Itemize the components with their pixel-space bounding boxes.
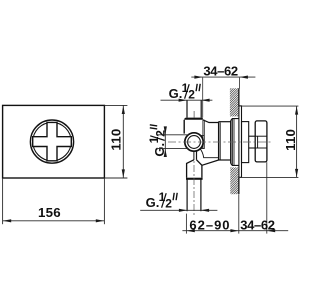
body left edge (183, 120, 185, 134)
dim G.1/2 left boss (147, 125, 168, 157)
handle stem (249, 135, 256, 137)
svg-text:110: 110 (108, 129, 123, 151)
lower block bottom thick bar (186, 178, 203, 180)
vertical center line bottom (193, 152, 195, 216)
bottom dim line 62-90 / 34-62 (182, 230, 288, 232)
dim G.1/2 top (169, 81, 196, 102)
lower block (187, 160, 194, 178)
dim 110 right (242, 105, 299, 107)
wall hatch upper block (230, 88, 239, 116)
svg-text:110: 110 (283, 129, 298, 151)
svg-text:62–90: 62–90 (189, 217, 230, 232)
body chamfer top right (203, 120, 219, 123)
dimension 110 (left view, right side) (104, 105, 127, 178)
svg-text:2: 2 (165, 197, 172, 211)
knob (255, 121, 267, 162)
svg-text:34–62: 34–62 (240, 217, 275, 232)
cartridge housing (218, 122, 220, 160)
neck below boss (193, 151, 195, 160)
knob inner lines (255, 135, 267, 137)
svg-text:34–62: 34–62 (203, 64, 238, 79)
cartridge sleeve (242, 122, 249, 163)
wall hatch lower block (230, 167, 238, 194)
dimension 156 (left view, bottom) (3, 178, 105, 224)
svg-text:156: 156 (38, 205, 61, 220)
handle inner circle (33, 122, 71, 160)
boss inner circle (188, 136, 201, 149)
svg-text:G.: G. (169, 86, 183, 101)
boss port stubs (201, 135, 205, 137)
horizontal center line (168, 141, 271, 143)
bore bottom line (199, 148, 218, 158)
body bottom chamfer to housing (202, 160, 219, 165)
escutcheon plate (239, 106, 242, 177)
top pipe center tick (193, 111, 195, 118)
plate rectangle (3, 105, 105, 178)
dim G.1/2 bottom (146, 190, 173, 211)
handle outer circle (30, 120, 73, 163)
svg-text:G.: G. (146, 195, 160, 210)
handle cross knob (33, 122, 72, 160)
boss outer circle (185, 133, 203, 151)
body internal vertical seams (202, 120, 204, 149)
top inlet pipe (186, 100, 188, 117)
bottom outlet pipe (186, 180, 188, 212)
valve body top thick bar (184, 118, 203, 120)
wall face line (238, 88, 240, 106)
in-wall flange (231, 119, 239, 166)
svg-text:2: 2 (188, 88, 195, 102)
